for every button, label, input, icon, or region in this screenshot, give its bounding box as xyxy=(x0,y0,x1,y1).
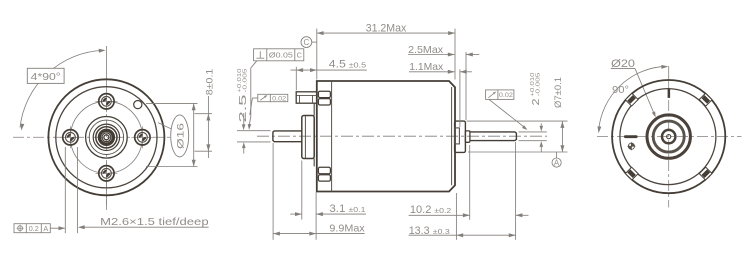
stub line below bottom hole xyxy=(105,181,107,206)
right view angular arc 90deg xyxy=(599,66,667,130)
leader from perpendicularity frame xyxy=(251,61,257,68)
front bearing boss xyxy=(302,116,314,159)
svg-text:13.3: 13.3 xyxy=(409,225,430,237)
dimension dia16 vertical xyxy=(146,102,198,104)
dimension 3.1+-0.1 xyxy=(301,161,303,220)
shaft collar xyxy=(465,131,470,142)
dimension dia2.5 shaft xyxy=(237,130,271,132)
motor body outline xyxy=(317,81,455,192)
right view centerlines xyxy=(668,66,670,80)
svg-text:±0.2: ±0.2 xyxy=(434,206,451,215)
svg-text:3.1: 3.1 xyxy=(329,203,345,215)
svg-text:M2.6×1.5 tief/deep: M2.6×1.5 tief/deep xyxy=(100,216,209,228)
svg-text:0.02: 0.02 xyxy=(272,96,286,103)
output shaft xyxy=(470,132,517,141)
svg-text:Ø0.05: Ø0.05 xyxy=(269,51,293,60)
bolt circle xyxy=(70,101,142,173)
dimension 4.5+-0.5 xyxy=(295,67,297,91)
dimension 9.9Max xyxy=(272,143,274,240)
svg-text:2.5Max: 2.5Max xyxy=(408,44,444,56)
svg-text:±0.1: ±0.1 xyxy=(349,205,366,214)
rim crimp tab NE xyxy=(699,93,712,106)
rear bearing boss xyxy=(455,121,466,152)
oval label dia16 leader xyxy=(158,123,171,129)
svg-text:C: C xyxy=(304,38,310,47)
svg-text:9.9Max: 9.9Max xyxy=(329,222,365,234)
mounting hole M2.6 #4 xyxy=(59,126,81,148)
svg-text:2.5: 2.5 xyxy=(238,94,249,123)
extension lines from tapped hole xyxy=(64,147,66,233)
leader from left runout frame xyxy=(252,97,257,99)
crimp tab top-left xyxy=(318,91,330,97)
left view outer circle xyxy=(48,79,164,195)
oval label dia16 xyxy=(171,115,189,157)
perpendicularity frame dia0.05 C xyxy=(254,49,304,61)
dimension dia2 output shaft xyxy=(519,131,547,133)
svg-text:1.1Max: 1.1Max xyxy=(409,61,444,73)
dimension 13.3+-0.3 xyxy=(455,193,457,240)
svg-text:4*90°: 4*90° xyxy=(31,72,61,83)
svg-text:-0.005: -0.005 xyxy=(242,68,248,92)
endcap inner line xyxy=(331,81,333,192)
dimension 2.5Max xyxy=(465,52,467,120)
dimension 10.2+-0.2 xyxy=(469,145,471,220)
mounting hole M2.6 #2 xyxy=(131,126,153,148)
svg-text:4.5: 4.5 xyxy=(329,59,346,71)
svg-text:C: C xyxy=(297,51,303,60)
svg-text:Ø16: Ø16 xyxy=(175,123,186,149)
position tolerance frame 0.2 A xyxy=(14,224,50,233)
top slot mark xyxy=(668,89,671,98)
svg-text:Ø7±0.1: Ø7±0.1 xyxy=(553,77,563,108)
middle view centerline xyxy=(257,135,547,137)
vent hole xyxy=(134,101,142,109)
svg-text:10.2: 10.2 xyxy=(410,204,432,216)
leader from right runout frame xyxy=(489,99,526,128)
front endcap face line xyxy=(313,103,315,115)
svg-text:2: 2 xyxy=(531,98,542,106)
svg-text:±0.3: ±0.3 xyxy=(433,227,450,236)
dimension 31.2Max xyxy=(316,29,318,80)
left view rim circle xyxy=(56,87,157,188)
right view outer circle xyxy=(612,80,725,193)
svg-text:A: A xyxy=(554,159,560,168)
mounting hole M2.6 #3 xyxy=(95,162,117,184)
rim crimp tab SE xyxy=(699,167,712,180)
weld target mark xyxy=(628,143,634,149)
runout frame right 0.02 xyxy=(486,90,514,100)
svg-text:-0.005: -0.005 xyxy=(535,72,541,96)
hub concentric circles xyxy=(86,117,128,159)
right view rim circle xyxy=(620,89,716,185)
runout frame left 0.02 xyxy=(258,94,288,101)
dimension 8+-0.1 xyxy=(195,113,213,115)
svg-text:A: A xyxy=(43,224,48,233)
left view angular arc 4x90 xyxy=(20,50,103,127)
svg-text:31.2Max: 31.2Max xyxy=(366,22,407,34)
rim crimp tab SW xyxy=(625,167,638,180)
mounting hole M2.6 #1 xyxy=(95,90,117,112)
datum C symbol xyxy=(312,41,317,43)
datum A symbol xyxy=(556,152,558,158)
label box 4*90deg xyxy=(27,68,64,83)
terminal xyxy=(296,92,317,103)
front shaft stub xyxy=(273,131,302,142)
left view centerlines xyxy=(105,46,107,80)
crimp tab bottom-left xyxy=(318,167,330,173)
dimension dia7 boss xyxy=(467,120,568,122)
svg-text:0.2: 0.2 xyxy=(29,224,39,233)
svg-text:±0.5: ±0.5 xyxy=(349,61,367,70)
left bar mark xyxy=(624,135,638,138)
rim crimp tab NW xyxy=(625,93,638,106)
leader from position frame xyxy=(50,227,65,229)
svg-text:90°: 90° xyxy=(612,85,629,96)
svg-text:0.02: 0.02 xyxy=(499,92,513,99)
svg-text:8±0.1: 8±0.1 xyxy=(204,69,214,96)
dimension 1.1Max xyxy=(459,69,461,127)
rear hub rings xyxy=(647,115,690,158)
right face inner line xyxy=(451,87,453,185)
